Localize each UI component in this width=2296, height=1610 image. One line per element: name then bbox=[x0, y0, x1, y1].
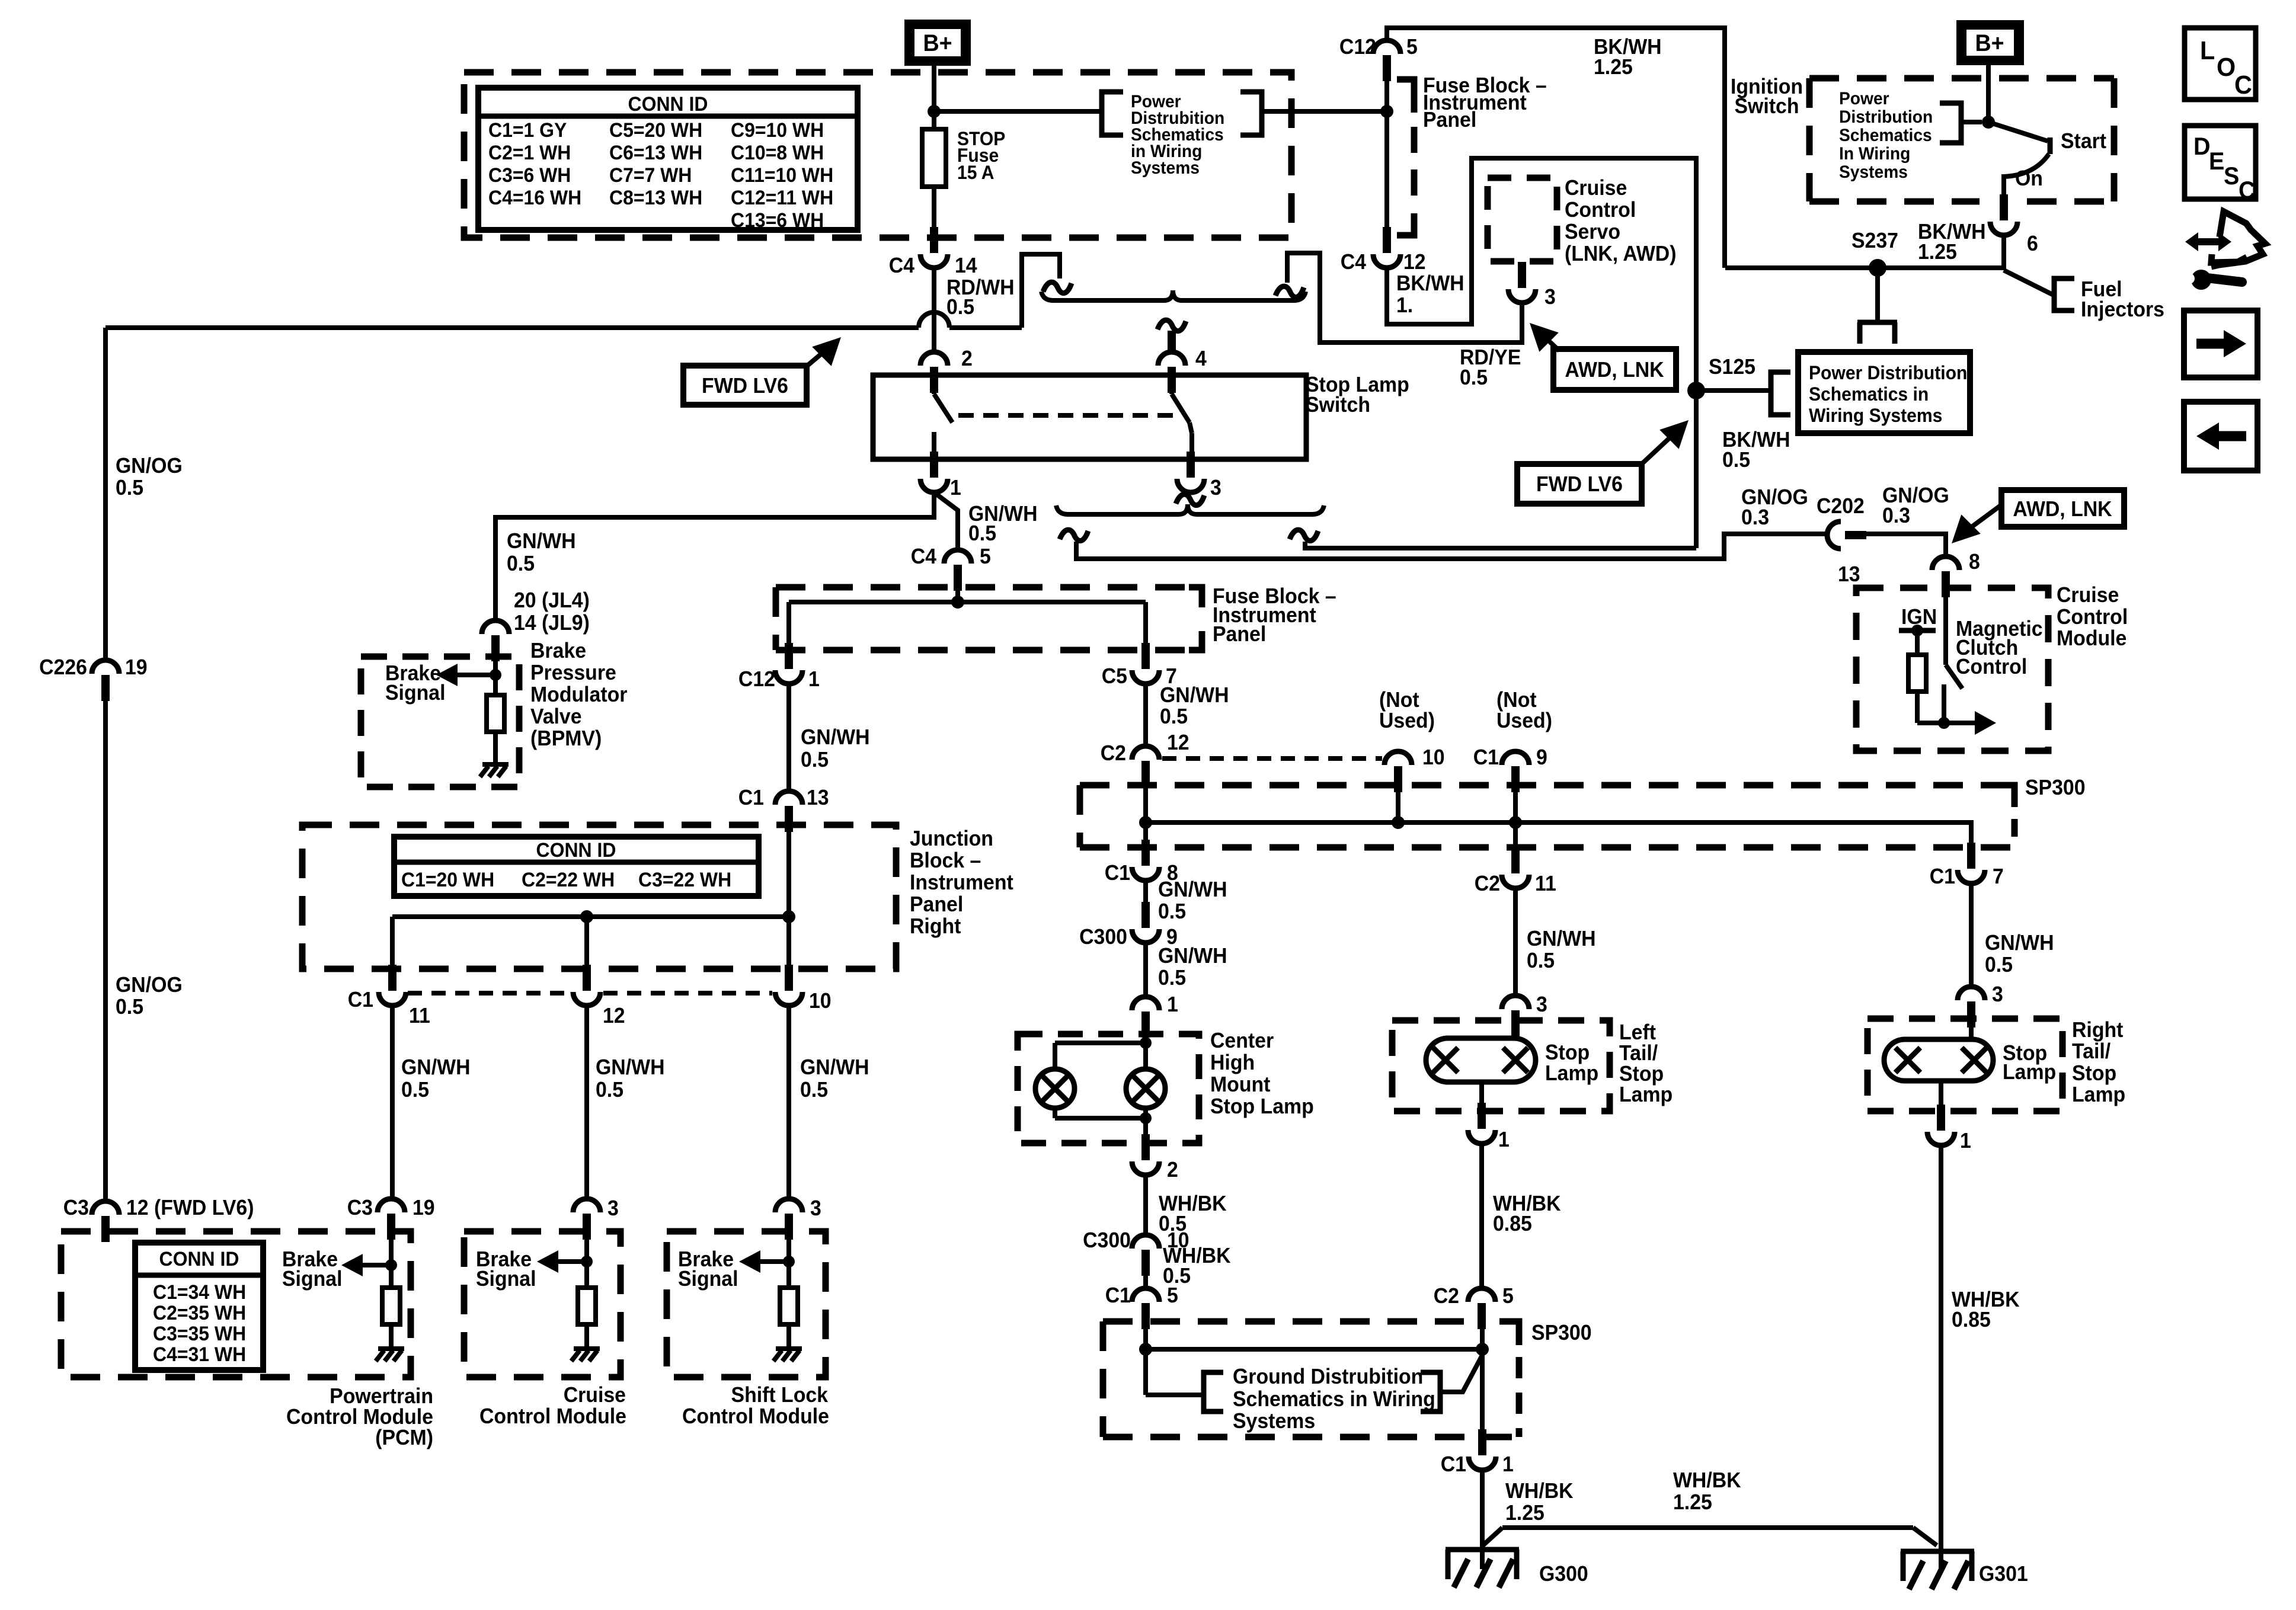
wire C1-10 to shift lock bbox=[786, 1006, 791, 1201]
svg-text:C12: C12 bbox=[1339, 35, 1376, 59]
svg-text:12 (FWD LV6): 12 (FWD LV6) bbox=[126, 1196, 254, 1219]
svg-text:4: 4 bbox=[1195, 347, 1207, 370]
svg-text:12: 12 bbox=[1403, 250, 1426, 274]
svg-text:Tail/: Tail/ bbox=[2072, 1039, 2110, 1063]
wire lower brace left leg to C202 (GN/OG) bbox=[1076, 534, 1828, 559]
svg-text:GN/WH: GN/WH bbox=[1985, 931, 2054, 955]
connector C3 pin 12 (PCM) bbox=[63, 1196, 254, 1242]
connector pin 1 (right lamp out) bbox=[1927, 1105, 1971, 1153]
wire servo pin3 down/left (RD/YE) bbox=[1287, 253, 1522, 343]
wire C4-5 into fuse block tee bbox=[955, 590, 960, 602]
svg-text:WH/BK: WH/BK bbox=[1505, 1479, 1574, 1503]
connector C1 pin 5 bbox=[1105, 1283, 1178, 1329]
svg-text:Power: Power bbox=[1839, 89, 1889, 108]
svg-text:11: 11 bbox=[409, 1004, 430, 1028]
label Powertrain Control Module (PCM) bbox=[286, 1384, 433, 1449]
wire label GN/WH 0.5 (C300-9) bbox=[1158, 944, 1227, 990]
label Cruise Control Module bbox=[2057, 583, 2128, 650]
wire to ground distribution note bbox=[1146, 1393, 1204, 1397]
svg-text:Power Distribution: Power Distribution bbox=[1809, 362, 1967, 383]
svg-text:3: 3 bbox=[1210, 476, 1221, 500]
harness mark upper right bbox=[1275, 286, 1304, 297]
CCM resistor bbox=[578, 1288, 596, 1349]
shift lock control module dashed box bbox=[667, 1231, 826, 1377]
svg-text:C3: C3 bbox=[347, 1196, 373, 1219]
junction node chmsl bottom bbox=[1140, 1112, 1152, 1124]
wire GN/WH branch to BPMV bbox=[495, 492, 934, 620]
svg-text:0.5: 0.5 bbox=[596, 1078, 623, 1102]
svg-text:19: 19 bbox=[412, 1196, 435, 1219]
not-used dotted row bbox=[1162, 756, 1382, 761]
svg-text:1.25: 1.25 bbox=[1594, 55, 1633, 79]
battery B+ terminal (right) bbox=[1956, 20, 2024, 65]
connector C202 pin 13 bbox=[1817, 494, 1866, 586]
ground tie wire G300-G301 bbox=[1483, 1528, 1937, 1545]
reference bracket at S125 bbox=[1771, 372, 1790, 415]
svg-text:Distribution: Distribution bbox=[1839, 107, 1933, 127]
svg-text:C2: C2 bbox=[1101, 741, 1126, 765]
junction node jb mid bbox=[580, 910, 593, 923]
svg-text:C12: C12 bbox=[738, 667, 775, 691]
svg-text:C6=13 WH: C6=13 WH bbox=[609, 141, 702, 164]
wire pin8 into module switch bbox=[1943, 588, 1948, 665]
wire label GN/WH 0.5 (C1-8) bbox=[1158, 878, 1227, 923]
connector pin 1 (CHMSL) bbox=[1132, 993, 1178, 1038]
wire C300-9 to lamp pin 1 bbox=[1143, 943, 1148, 998]
svg-text:GN/WH: GN/WH bbox=[1527, 927, 1596, 950]
svg-text:Junction: Junction bbox=[910, 827, 993, 850]
svg-text:5: 5 bbox=[980, 545, 991, 568]
junction node on B+ feed bbox=[928, 105, 941, 118]
svg-text:Pressure: Pressure bbox=[530, 661, 616, 684]
svg-text:C10=8 WH: C10=8 WH bbox=[731, 141, 824, 164]
connector pin 3 (left lamp) bbox=[1502, 993, 1547, 1036]
wire pin2 to C300-10 bbox=[1143, 1175, 1148, 1236]
svg-text:C2=1 WH: C2=1 WH bbox=[488, 141, 571, 164]
svg-text:1: 1 bbox=[1498, 1128, 1510, 1151]
svg-text:12: 12 bbox=[603, 1004, 625, 1028]
svg-text:Center: Center bbox=[1210, 1029, 1274, 1052]
wire bus right drop bbox=[1143, 602, 1148, 651]
svg-text:14: 14 bbox=[955, 254, 977, 277]
junction node sp300g right bbox=[1476, 1343, 1489, 1356]
svg-text:1.25: 1.25 bbox=[1673, 1490, 1712, 1514]
reference bracket right for power distribution note bbox=[1240, 92, 1262, 135]
svg-text:BK/WH: BK/WH bbox=[1396, 271, 1464, 295]
cruise control module dashed box bbox=[1856, 588, 2048, 751]
svg-text:L: L bbox=[2200, 36, 2215, 65]
wire label GN/OG 0.3 (left) bbox=[1741, 485, 1808, 529]
svg-text:G301: G301 bbox=[1979, 1562, 2028, 1586]
wire C5-7 down to C2-12 bbox=[1143, 684, 1148, 746]
svg-text:Signal: Signal bbox=[476, 1267, 536, 1291]
connector C300 pin 10 bbox=[1083, 1228, 1189, 1276]
connector C2 pin 11 bbox=[1475, 847, 1556, 895]
svg-text:1: 1 bbox=[1502, 1452, 1514, 1476]
label Junction Block - Instrument Panel Right bbox=[910, 827, 1013, 938]
junction node CCM bbox=[581, 1256, 593, 1267]
svg-text:(LNK, AWD): (LNK, AWD) bbox=[1565, 242, 1677, 265]
label Fuel Injectors bbox=[2081, 277, 2164, 321]
harness mark lower left bbox=[1060, 530, 1088, 540]
svg-text:Control Module: Control Module bbox=[479, 1404, 626, 1428]
connector pin 1 (left lamp out) bbox=[1468, 1103, 1510, 1151]
svg-text:8: 8 bbox=[1969, 550, 1980, 574]
svg-text:Module: Module bbox=[2057, 626, 2126, 650]
svg-text:C3=6 WH: C3=6 WH bbox=[488, 164, 571, 186]
label Stop Lamp (right) bbox=[2003, 1041, 2056, 1084]
label IGN bbox=[1901, 605, 1937, 629]
callout box FWD LV6 (lower) bbox=[1517, 464, 1642, 504]
wire pin6 down to S237 rail bbox=[2001, 235, 2006, 270]
connector C12 pin 5 bbox=[1339, 35, 1418, 81]
svg-text:C4: C4 bbox=[1341, 250, 1367, 274]
label (Not Used) right bbox=[1496, 688, 1552, 732]
svg-text:E: E bbox=[2209, 147, 2224, 175]
svg-text:1: 1 bbox=[808, 667, 820, 691]
svg-text:C4=16 WH: C4=16 WH bbox=[488, 186, 581, 209]
svg-text:WH/BK: WH/BK bbox=[1673, 1468, 1741, 1492]
wire C1-12 to cruise module bbox=[584, 1006, 589, 1201]
wire C3-19 into PCM bbox=[389, 1238, 394, 1288]
svg-text:CONN ID: CONN ID bbox=[536, 838, 616, 861]
svg-text:9: 9 bbox=[1536, 745, 1547, 769]
svg-text:Control: Control bbox=[1956, 655, 2027, 678]
reference bracket Fuel Injectors bbox=[2054, 279, 2074, 311]
arrow from upper FWD LV6 callout bbox=[807, 337, 841, 366]
harness mark above connector 4 bbox=[1157, 320, 1186, 331]
SLCM resistor bbox=[780, 1288, 798, 1349]
svg-text:1.: 1. bbox=[1396, 293, 1413, 317]
fuse block IP dashed box bbox=[464, 72, 1291, 238]
svg-text:Schematics: Schematics bbox=[1839, 126, 1932, 145]
wire from B+ node to C12-5 bbox=[934, 109, 1387, 114]
svg-text:C4: C4 bbox=[911, 545, 937, 568]
svg-text:CONN ID: CONN ID bbox=[628, 92, 708, 115]
junction node SLCM bbox=[783, 1256, 795, 1267]
svg-text:C4=31 WH: C4=31 WH bbox=[153, 1343, 246, 1365]
label Cruise Control Module (bottom) bbox=[479, 1383, 626, 1428]
junction node SP300 left bbox=[1139, 816, 1152, 829]
CONN ID table T2 bbox=[394, 837, 759, 896]
harness mark upper left bbox=[1043, 282, 1072, 293]
svg-text:Servo: Servo bbox=[1565, 220, 1620, 244]
ignition switch dashed box bbox=[1809, 78, 2114, 201]
arrow from lower AWD LNK callout bbox=[1952, 505, 2001, 543]
svg-text:GN/WH: GN/WH bbox=[401, 1055, 471, 1079]
connector C300 pin 9 bbox=[1079, 902, 1178, 949]
svg-text:Cruise: Cruise bbox=[1565, 176, 1627, 200]
wire C2-5 through SP300 bbox=[1480, 1329, 1485, 1438]
svg-text:19: 19 bbox=[125, 655, 148, 679]
wire label GN/WH 0.5 (switch out) bbox=[968, 502, 1038, 545]
svg-text:CONN ID: CONN ID bbox=[159, 1247, 239, 1270]
wire C300-10 to C1-5 bbox=[1143, 1275, 1148, 1289]
center high mount stop lamp dashed box bbox=[1018, 1034, 1199, 1143]
wire C1-13 into junction block bbox=[786, 831, 791, 917]
riser to upper brace left bbox=[1022, 254, 1060, 328]
ground (PCM internal) bbox=[376, 1349, 404, 1361]
switch pole left bbox=[934, 375, 952, 459]
svg-text:GN/WH: GN/WH bbox=[507, 529, 576, 553]
connector pin 4 bbox=[1158, 331, 1207, 393]
icon arrow left box bbox=[2184, 402, 2257, 470]
PCM resistor bbox=[382, 1288, 400, 1349]
svg-text:SP300: SP300 bbox=[1531, 1321, 1592, 1345]
icon vehicle view with arrow and wrench bbox=[2184, 212, 2265, 290]
svg-text:Systems: Systems bbox=[1839, 162, 1908, 182]
svg-text:Panel: Panel bbox=[910, 892, 963, 916]
connector C1 pin 12 bbox=[573, 965, 625, 1028]
note: Power Distribution Schematics In Wiring Systems (ignition) bbox=[1839, 89, 1933, 182]
svg-text:1.25: 1.25 bbox=[1918, 240, 1957, 264]
svg-text:C1: C1 bbox=[1930, 865, 1955, 888]
label Center High Mount Stop Lamp bbox=[1210, 1029, 1314, 1118]
CHMSL wiring top bbox=[1055, 1036, 1146, 1069]
wire label WH/BK 1.25 (G300) bbox=[1505, 1479, 1574, 1525]
right tail lamp dashed box bbox=[1868, 1019, 2062, 1111]
svg-text:Mount: Mount bbox=[1210, 1073, 1271, 1096]
wire C1-5 into SP300 bbox=[1143, 1329, 1148, 1395]
wire label WH/BK 0.85 (right) bbox=[1952, 1288, 2020, 1331]
svg-text:3: 3 bbox=[1992, 982, 2003, 1006]
connector C5 pin 7 bbox=[1102, 643, 1177, 688]
svg-text:14 (JL9): 14 (JL9) bbox=[514, 611, 590, 635]
svg-text:In Wiring: In Wiring bbox=[1839, 144, 1910, 164]
svg-text:0.5: 0.5 bbox=[946, 295, 974, 319]
svg-text:Ground Distrubition: Ground Distrubition bbox=[1233, 1365, 1423, 1388]
svg-text:Lamp: Lamp bbox=[1545, 1061, 1598, 1085]
svg-text:D: D bbox=[2193, 132, 2211, 160]
wire into right lamp bbox=[1969, 1026, 1974, 1042]
svg-text:O: O bbox=[2217, 53, 2236, 82]
svg-text:C1: C1 bbox=[1105, 861, 1130, 885]
label On bbox=[2015, 167, 2043, 190]
junction node BPMV brake signal bbox=[490, 669, 501, 681]
connector C1 pin 9 (not used) bbox=[1473, 745, 1547, 792]
icon DESC bbox=[2185, 126, 2256, 204]
svg-text:7: 7 bbox=[1993, 865, 2004, 888]
junction node chmsl top bbox=[1140, 1037, 1152, 1049]
blade to fuel injectors reference bbox=[2004, 270, 2052, 295]
splice pack SP300 ground dashed box bbox=[1103, 1321, 1519, 1437]
svg-text:Right: Right bbox=[910, 914, 961, 938]
wire C4-14 down to switch pin2 bbox=[932, 268, 936, 352]
wire lower brace right leg to S125 riser (BK/WH) bbox=[1305, 542, 1696, 548]
connector C12 pin 1 bbox=[738, 643, 820, 691]
wire label GN/WH 0.5 (C5-7) bbox=[1160, 683, 1229, 728]
svg-text:13: 13 bbox=[807, 786, 829, 809]
wire GN/OG to left edge with hop bbox=[105, 312, 1022, 328]
svg-text:0.5: 0.5 bbox=[1985, 953, 2013, 977]
svg-text:Lamp: Lamp bbox=[2003, 1060, 2056, 1084]
svg-text:0.5: 0.5 bbox=[1722, 448, 1750, 472]
wire label GN/OG 0.5 (upper) bbox=[116, 454, 183, 500]
svg-text:Brake: Brake bbox=[530, 639, 586, 662]
svg-text:C1: C1 bbox=[1473, 745, 1499, 769]
label Magnetic Clutch Control bbox=[1956, 617, 2043, 678]
svg-text:S: S bbox=[2224, 162, 2239, 190]
svg-text:0.85: 0.85 bbox=[1493, 1212, 1532, 1235]
svg-text:Control Module: Control Module bbox=[682, 1404, 829, 1428]
wire label GN/OG 0.5 (lower) bbox=[116, 973, 183, 1019]
svg-text:C13=6 WH: C13=6 WH bbox=[731, 209, 824, 231]
svg-text:C300: C300 bbox=[1079, 925, 1127, 949]
connector 20 (JL4) / 14 (JL9) bbox=[482, 588, 590, 661]
svg-text:C3=22 WH: C3=22 WH bbox=[638, 868, 731, 891]
svg-text:6: 6 bbox=[2027, 232, 2038, 255]
svg-text:AWD, LNK: AWD, LNK bbox=[1565, 358, 1664, 382]
wire B+ feed down to STOP fuse bbox=[932, 66, 936, 237]
svg-text:5: 5 bbox=[1502, 1284, 1514, 1308]
svg-text:C: C bbox=[2239, 176, 2256, 204]
brake signal arrow (BPMV) bbox=[436, 664, 495, 686]
svg-text:GN/WH: GN/WH bbox=[800, 1055, 869, 1079]
wire pin3 into CCM bbox=[584, 1238, 589, 1288]
connector C4 pin 12 bbox=[1341, 227, 1426, 274]
SP300 bus wire bbox=[1146, 822, 1971, 857]
svg-text:0.5: 0.5 bbox=[1158, 966, 1186, 990]
wire C12-1 down to C1-13 bbox=[786, 684, 791, 792]
reference bracket right (ground dist) bbox=[1421, 1372, 1440, 1411]
harness mark below connector 3 bbox=[1176, 494, 1204, 505]
reference bracket left for power distribution note bbox=[1102, 92, 1123, 135]
svg-text:C202: C202 bbox=[1817, 494, 1865, 518]
ground (SLCM internal) bbox=[773, 1349, 802, 1361]
BPMV dashed box bbox=[361, 657, 519, 787]
svg-text:Switch: Switch bbox=[1734, 94, 1799, 118]
svg-text:Panel: Panel bbox=[1213, 622, 1266, 646]
wire C2-11 down bbox=[1513, 822, 1518, 997]
svg-text:0.5: 0.5 bbox=[801, 748, 829, 772]
wire label WH/BK 0.5 (C300-10) bbox=[1163, 1244, 1231, 1288]
svg-text:GN/WH: GN/WH bbox=[1158, 944, 1227, 968]
wire label GN/WH 0.5 (ccm) bbox=[596, 1055, 665, 1102]
junction block internal bus bbox=[392, 917, 789, 970]
svg-text:FWD LV6: FWD LV6 bbox=[702, 374, 788, 398]
label Brake Pressure Modulator Valve (BPMV) bbox=[530, 639, 628, 750]
svg-text:C4: C4 bbox=[889, 254, 915, 277]
svg-text:0.5: 0.5 bbox=[116, 995, 143, 1019]
connector pin 10 (not used) bbox=[1384, 745, 1445, 792]
lamp bulb right bbox=[1126, 1069, 1165, 1108]
connector C2 pin 12 bbox=[1101, 731, 1189, 787]
wire C202 to cruise module pin 8 bbox=[1866, 534, 1946, 556]
wire S237 rail bbox=[1725, 265, 2004, 270]
svg-text:1: 1 bbox=[1960, 1129, 1971, 1153]
cruise control module dashed box (bottom) bbox=[464, 1231, 621, 1377]
icon LOC bbox=[2185, 28, 2256, 100]
reference bracket left (ground dist) bbox=[1204, 1372, 1223, 1411]
svg-text:(PCM): (PCM) bbox=[375, 1426, 433, 1449]
label Ignition Switch bbox=[1731, 75, 1803, 118]
svg-text:C1=34 WH: C1=34 WH bbox=[153, 1281, 246, 1303]
connector C1 pin 1 (ground lead) bbox=[1441, 1429, 1514, 1476]
svg-text:5: 5 bbox=[1406, 35, 1418, 59]
switch mechanical link (dashed) bbox=[958, 413, 1179, 418]
BPMV sense resistor bbox=[487, 695, 504, 764]
connector C3 pin 19 (PCM) bbox=[347, 1196, 435, 1240]
wire left lamp to C2-5 bbox=[1479, 1144, 1484, 1289]
connector C4 pin 14 bbox=[889, 227, 977, 277]
note Ground Distrubition Schematics in Wiring Systems bbox=[1233, 1365, 1435, 1433]
svg-text:3: 3 bbox=[607, 1196, 619, 1220]
wire S125 to reference bracket bbox=[1696, 388, 1771, 393]
svg-text:Schematics in Wiring: Schematics in Wiring bbox=[1233, 1387, 1435, 1411]
wire right lamp to G301 bbox=[1939, 1145, 1943, 1570]
svg-text:Stop Lamp: Stop Lamp bbox=[1210, 1094, 1314, 1118]
brake signal arrow (PCM) bbox=[341, 1254, 391, 1276]
connector servo pin 3 bbox=[1508, 262, 1556, 309]
svg-text:0.5: 0.5 bbox=[1460, 366, 1488, 389]
battery B+ terminal (left) bbox=[904, 20, 971, 66]
svg-text:Used): Used) bbox=[1379, 709, 1435, 732]
svg-text:Block –: Block – bbox=[910, 849, 981, 872]
wire to G300 bbox=[1480, 1470, 1485, 1569]
label SP300 bbox=[2025, 776, 2086, 799]
wire GN/OG down left edge bbox=[103, 328, 108, 660]
switch pole right bbox=[1172, 375, 1192, 459]
svg-text:0.5: 0.5 bbox=[1158, 900, 1186, 923]
svg-text:Wiring Systems: Wiring Systems bbox=[1809, 405, 1942, 426]
wire C1-11 to PCM bbox=[390, 1006, 395, 1201]
svg-text:G300: G300 bbox=[1539, 1562, 1588, 1586]
svg-text:C: C bbox=[2234, 71, 2252, 100]
svg-text:C1: C1 bbox=[348, 988, 373, 1012]
svg-text:Switch: Switch bbox=[1306, 393, 1370, 417]
wire C12-5 down to C4-12 bbox=[1384, 79, 1389, 237]
connector C2 pin 5 bbox=[1434, 1284, 1514, 1329]
callout box FWD LV6 (upper) bbox=[683, 366, 807, 405]
brake signal arrow (CCM) bbox=[537, 1250, 587, 1273]
svg-text:Signal: Signal bbox=[385, 681, 446, 705]
svg-text:C9=10 WH: C9=10 WH bbox=[731, 119, 824, 141]
svg-text:20 (JL4): 20 (JL4) bbox=[514, 588, 590, 612]
wire label RD/WH 0.5 bbox=[946, 276, 1015, 319]
svg-text:C1: C1 bbox=[1441, 1452, 1466, 1476]
wire into BPMV bbox=[493, 660, 498, 695]
svg-text:C1: C1 bbox=[738, 786, 764, 809]
wire left lamp out bbox=[1479, 1082, 1484, 1111]
svg-text:Instrument: Instrument bbox=[910, 870, 1013, 894]
svg-text:13: 13 bbox=[1838, 562, 1860, 586]
svg-text:AWD, LNK: AWD, LNK bbox=[2013, 497, 2112, 521]
CONN ID table T1 bbox=[478, 88, 858, 231]
svg-text:Control: Control bbox=[2057, 605, 2128, 629]
label Cruise Control Servo (LNK, AWD) bbox=[1565, 176, 1677, 265]
svg-text:Right: Right bbox=[2072, 1018, 2124, 1042]
svg-text:B+: B+ bbox=[923, 30, 952, 56]
connector pin 1 bbox=[920, 452, 961, 500]
svg-text:C5: C5 bbox=[1102, 664, 1127, 688]
connector pin 3 (right lamp) bbox=[1958, 982, 2003, 1028]
svg-text:Systems: Systems bbox=[1131, 158, 1200, 178]
svg-text:S237: S237 bbox=[1851, 229, 1898, 252]
SP300 ground bus bbox=[1146, 1347, 1482, 1352]
svg-text:GN/WH: GN/WH bbox=[1160, 683, 1229, 707]
junction node fuse block tee bbox=[951, 596, 964, 609]
junction node at C12-5 drop bbox=[1380, 105, 1393, 118]
svg-text:GN/OG: GN/OG bbox=[116, 454, 183, 478]
note: Power Distrubition Schematics in Wiring Systems bbox=[1131, 92, 1224, 178]
svg-text:10: 10 bbox=[1422, 745, 1445, 769]
label Brake Signal (SLCM) bbox=[678, 1247, 738, 1291]
svg-text:1: 1 bbox=[1167, 993, 1178, 1016]
label Left Tail/ Stop Lamp bbox=[1619, 1020, 1673, 1106]
fuse block internal bus bbox=[789, 600, 1146, 604]
wire label BK/WH 1. bbox=[1396, 271, 1464, 317]
svg-text:C1=20 WH: C1=20 WH bbox=[401, 868, 494, 891]
